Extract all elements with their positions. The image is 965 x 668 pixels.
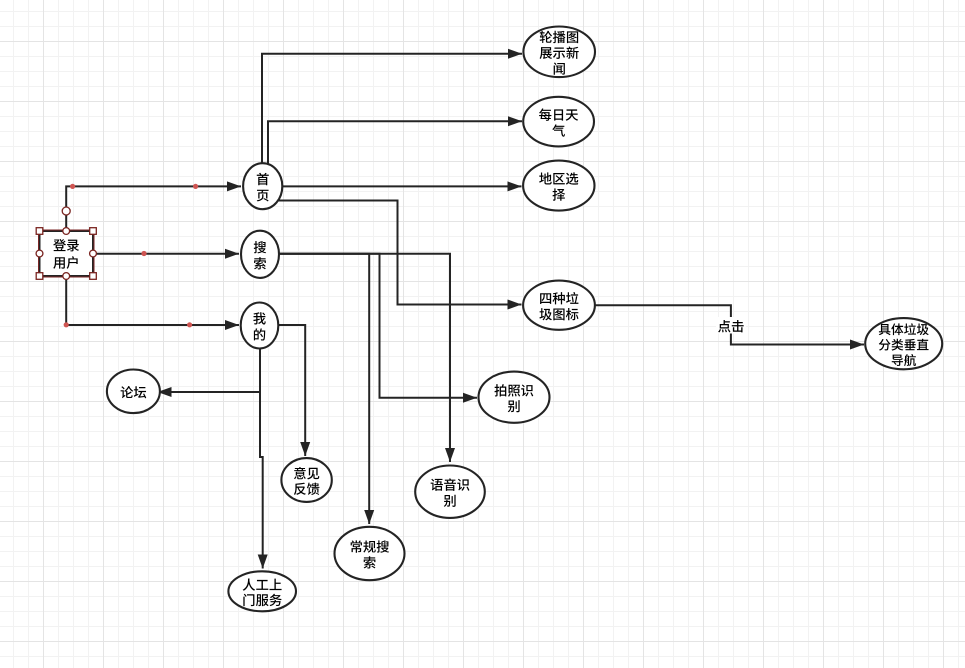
- wire 四种垃圾图标→具体垃圾分类垂直导航: [595, 305, 864, 349]
- selection edge-midpoint handles: [36, 228, 96, 280]
- wire 首页→每日天气: [268, 116, 522, 165]
- edge label 点击: [716, 317, 746, 334]
- wire 首页→轮播图展示新闻: [262, 49, 522, 164]
- node 轮播图展示新闻 (ellipse): [523, 27, 595, 78]
- wire 首页→四种垃圾图标: [277, 201, 522, 310]
- node 拍照识别 (ellipse): [479, 372, 550, 423]
- node 语音识别 (ellipse): [415, 466, 485, 518]
- wire 搜索→拍照识别: [279, 254, 477, 403]
- wire 我的→论坛: [158, 387, 261, 397]
- node 我的 (ellipse): [241, 303, 279, 349]
- node 意见反馈 (ellipse): [281, 458, 331, 502]
- node 首页 (ellipse): [243, 163, 282, 209]
- node 论坛 (ellipse): [107, 370, 160, 414]
- wire 我的→意见反馈: [278, 325, 310, 456]
- wire 搜索→常规搜索: [279, 254, 374, 524]
- selection corner handles: [36, 228, 96, 280]
- node 具体垃圾分类垂直导航 (ellipse): [865, 318, 942, 369]
- node 搜索 (ellipse): [241, 231, 279, 278]
- node 登录用户 (selected rectangle): [39, 230, 95, 277]
- wire 登录用户→搜索: [93, 249, 239, 259]
- node 常规搜索 (ellipse): [335, 527, 405, 580]
- node 地区选择 (ellipse): [523, 161, 594, 211]
- wire 首页→地区选择: [282, 181, 522, 191]
- selection rotation handle: [62, 207, 70, 215]
- node 四种垃圾图标 (ellipse): [523, 281, 595, 330]
- wire 登录用户→首页: [66, 181, 241, 231]
- node 每日天气 (ellipse): [523, 97, 594, 147]
- wire 搜索→语音识别: [279, 254, 455, 462]
- wire 我的→人工上门服务: [258, 349, 268, 569]
- wire 登录用户→我的: [66, 276, 239, 330]
- red waypoint dots on edges: [64, 184, 199, 328]
- node 人工上门服务 (ellipse): [228, 571, 296, 611]
